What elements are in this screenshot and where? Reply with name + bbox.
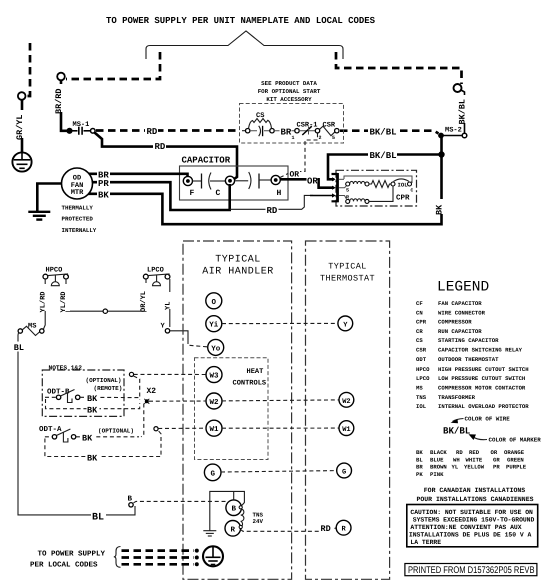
svg-text:1: 1 — [292, 135, 295, 141]
svg-text:SEE PRODUCT DATA: SEE PRODUCT DATA — [261, 80, 317, 87]
svg-text:2: 2 — [319, 135, 322, 141]
label: PR (fan) — [97, 178, 110, 189]
svg-text:G: G — [342, 469, 346, 477]
terminal H — [271, 175, 281, 198]
node: wire end dots — [195, 549, 199, 567]
label: thermally protected internally — [62, 205, 97, 235]
label: RD (thermostat R) — [321, 524, 331, 534]
svg-text:WH: WH — [453, 456, 460, 463]
capacitor CS (starting capacitor) — [242, 112, 274, 136]
svg-text:CONTROLS: CONTROLS — [233, 380, 267, 388]
terminal C — [216, 176, 235, 198]
svg-text:HIGH PRESSURE CUTOUT SWITCH: HIGH PRESSURE CUTOUT SWITCH — [438, 366, 529, 373]
label: BK (ODT-A) — [82, 432, 95, 443]
node: GR/YL connector circle — [18, 92, 26, 100]
label: OR/YL — [139, 283, 150, 312]
compressor internal wiring — [339, 176, 412, 199]
svg-text:OR/YL: OR/YL — [139, 291, 148, 312]
svg-text:IOL: IOL — [398, 181, 409, 188]
wire: B dashed to air handler B — [134, 501, 229, 503]
svg-text:FAN CAPACITOR: FAN CAPACITOR — [438, 300, 482, 307]
svg-text:CR: CR — [416, 328, 423, 335]
switch HPCO (high pressure cutout) — [43, 267, 68, 286]
label: RD (compressor) — [266, 205, 279, 216]
label: X2 — [147, 387, 157, 396]
label: OR (solid) — [307, 175, 319, 186]
wire: W1 connector dashed to air handler W1 — [158, 427, 206, 429]
svg-text:F: F — [190, 189, 195, 198]
svg-text:ORANGE: ORANGE — [504, 449, 525, 456]
svg-text:BK/BL: BK/BL — [443, 426, 471, 437]
svg-text:FOR CANADIAN INSTALLATIONS: FOR CANADIAN INSTALLATIONS — [424, 487, 526, 494]
wire: L2 dashed power drop (right) — [336, 52, 462, 84]
label: printed from — [408, 565, 535, 576]
wire: power feed brace outline — [146, 31, 343, 59]
resistor (run winding) — [369, 181, 391, 188]
svg-text:LOW PRESSURE CUTOUT SWITCH: LOW PRESSURE CUTOUT SWITCH — [438, 375, 525, 382]
wire: BR/RD vertical wire to MS-1 — [61, 81, 67, 131]
svg-text:IOL: IOL — [416, 403, 427, 410]
svg-text:INTERNALLY: INTERNALLY — [62, 227, 97, 234]
wire: W3 dashed to air handler W3 — [134, 373, 206, 375]
svg-text:CPR: CPR — [416, 319, 427, 326]
svg-text:BROWN: BROWN — [430, 464, 447, 471]
svg-text:MS-1: MS-1 — [73, 121, 90, 129]
svg-text:Yo: Yo — [211, 345, 221, 353]
connector CN on link wire — [103, 309, 107, 313]
node: power supply note (top) — [106, 15, 375, 26]
wire: RD from capacitor C to compressor R — [230, 195, 334, 209]
wire: BL from MS down the left side to B terminal — [18, 333, 135, 515]
label: typical air handler — [202, 255, 274, 278]
label: (OPTIONAL) ODT-A — [98, 428, 134, 435]
svg-text:OUTDOOR THERMOSTAT: OUTDOOR THERMOSTAT — [438, 356, 499, 363]
svg-text:RD: RD — [456, 449, 463, 456]
label: color of marker callout — [469, 434, 542, 443]
wire: G to thermostat G — [221, 471, 337, 472]
label: LEGEND title — [437, 280, 489, 296]
wire: fan motor PR to capacitor C — [92, 182, 230, 210]
svg-text:C: C — [216, 189, 221, 198]
label: BK/BL on solid wire — [368, 150, 397, 161]
label: BK/BL on dashed wire — [368, 126, 397, 137]
label: canadian installations note — [416, 487, 533, 503]
wire: Y to Yo — [170, 331, 208, 347]
svg-text:MTR: MTR — [71, 189, 84, 197]
compressor CPR connector bar — [332, 173, 338, 202]
wire: W1 to thermostat W1 — [222, 427, 339, 429]
svg-text:(OPTIONAL): (OPTIONAL) — [86, 377, 122, 384]
terminal B (air handler) — [226, 500, 242, 516]
svg-text:GR: GR — [493, 456, 500, 463]
svg-text:TO POWER SUPPLY: TO POWER SUPPLY — [38, 550, 106, 559]
label: notes 1&2 — [49, 365, 83, 372]
label: legend abbreviations list — [416, 300, 529, 410]
wire: RD solid (MS-1 to capacitor C) — [95, 133, 238, 181]
svg-text:SYSTEMS EXCEEDING 150V-TO-GROU: SYSTEMS EXCEEDING 150V-TO-GROUND — [413, 517, 535, 524]
svg-text:BL: BL — [416, 456, 423, 463]
label: YL/RD (second) — [59, 284, 70, 313]
svg-text:HPCO: HPCO — [46, 267, 63, 275]
wire: GR/YL dashed power drop — [26, 43, 30, 96]
node: W1 field connector — [154, 427, 158, 431]
label: BL (lower) — [91, 509, 106, 524]
compressor start winding S — [346, 181, 369, 193]
label: BK/BL (vertical) — [458, 95, 470, 125]
svg-text:MS: MS — [416, 385, 423, 392]
svg-text:CSR-1: CSR-1 — [297, 122, 318, 130]
svg-text:HPCO: HPCO — [416, 366, 430, 373]
svg-text:PURPLE: PURPLE — [506, 464, 527, 471]
terminal O (air handler) — [206, 293, 222, 309]
label: BK/BL wire marker example — [443, 426, 471, 437]
svg-text:(OPTIONAL): (OPTIONAL) — [98, 428, 134, 435]
node: junction dot BK/BL — [438, 151, 444, 157]
wire: YL/RD from HPCO right down to CN link — [66, 279, 103, 311]
node: B terminal connector — [128, 496, 134, 507]
svg-text:RD: RD — [155, 142, 166, 152]
svg-text:OR: OR — [307, 176, 318, 186]
relay contact CSR-1 — [274, 122, 317, 142]
wire: fan motor BR to capacitor F — [89, 174, 188, 177]
svg-text:BK: BK — [98, 191, 109, 201]
svg-text:C: C — [411, 188, 414, 194]
wire: X2 dashed to air handler W2 — [149, 400, 206, 402]
svg-text:(REMOTE): (REMOTE) — [94, 385, 123, 392]
svg-text:BLACK: BLACK — [430, 449, 447, 456]
svg-text:COLOR OF WIRE: COLOR OF WIRE — [465, 416, 511, 423]
wire: W2 to thermostat W2 — [222, 400, 339, 401]
svg-text:CAPACITOR: CAPACITOR — [182, 156, 231, 166]
wire: BK/BL dashed (CSR to MS-2) — [340, 131, 439, 134]
svg-text:YL/RD: YL/RD — [59, 291, 68, 312]
wire: L1 dashed power drop to BR/RD connector — [66, 52, 160, 79]
label: BK (fan) — [97, 190, 110, 201]
node: printed-from box — [405, 564, 537, 576]
svg-text:BR/RD: BR/RD — [54, 88, 64, 114]
svg-text:PER LOCAL CODES: PER LOCAL CODES — [30, 561, 98, 570]
wire: RD dashed (MS-1 to start kit box) — [96, 129, 240, 132]
svg-text:CF: CF — [416, 300, 423, 307]
terminal R (air handler) — [225, 521, 241, 537]
svg-text:FOR OPTIONAL START: FOR OPTIONAL START — [258, 88, 321, 95]
terminal W1 (air handler) — [206, 420, 222, 436]
svg-text:24V: 24V — [253, 518, 264, 525]
label: RD (dashed run) — [145, 126, 158, 137]
capacitor box label — [182, 156, 231, 166]
svg-text:STARTING CAPACITOR: STARTING CAPACITOR — [438, 337, 499, 344]
label: BK (ODT-B lower) — [87, 404, 100, 415]
svg-text:BK: BK — [82, 434, 93, 444]
transformer TNS coil — [239, 506, 244, 529]
box: heat controls — [195, 358, 269, 460]
svg-text:RD: RD — [267, 206, 278, 216]
label: YL — [165, 292, 175, 310]
terminal G (air handler) — [204, 464, 221, 481]
svg-text:ATTENTION:NE CONVIENT PAS AUX: ATTENTION:NE CONVIENT PAS AUX — [410, 524, 521, 531]
svg-text:BR: BR — [416, 464, 423, 471]
node: W3 field connector — [129, 372, 133, 376]
svg-text:BK: BK — [87, 453, 98, 463]
svg-text:O: O — [212, 298, 217, 307]
wire: ODT-A bypass loop down to W1 connector — [45, 430, 161, 456]
svg-text:BR: BR — [281, 127, 292, 137]
svg-text:WHITE: WHITE — [466, 456, 483, 463]
svg-text:W2: W2 — [342, 398, 350, 406]
wire: power line L1 (bottom) — [122, 549, 195, 552]
svg-text:AIR HANDLER: AIR HANDLER — [202, 267, 274, 278]
svg-text:COMPRESSOR: COMPRESSOR — [438, 319, 472, 326]
svg-text:BK/BL: BK/BL — [370, 151, 397, 161]
wire: junction MS-2 down to BK/BL node — [440, 137, 443, 155]
svg-text:CSR: CSR — [416, 347, 427, 354]
node: BR/RD connector circle — [57, 73, 65, 81]
compressor run winding R — [346, 186, 393, 203]
terminal W1 (thermostat) — [339, 421, 354, 436]
capacitor CR plates (F side) — [193, 173, 226, 190]
wire: fan motor frame ground — [37, 184, 61, 212]
compressor CPR dash-dot box — [336, 170, 417, 206]
transformer TNS wiring loop — [210, 491, 245, 530]
svg-text:W2: W2 — [209, 398, 219, 407]
svg-text:W1: W1 — [209, 426, 219, 434]
svg-text:ODT: ODT — [416, 356, 427, 363]
svg-text:CAPACITOR SWITCHING RELAY: CAPACITOR SWITCHING RELAY — [438, 347, 523, 354]
overload protector IOL — [391, 179, 414, 194]
wire: BK/BL wire down to MS-2 — [461, 90, 465, 133]
thermostat ODT-B — [45, 388, 80, 403]
svg-text:BK/BL: BK/BL — [370, 127, 397, 137]
svg-text:BK: BK — [435, 204, 445, 215]
box: ODT-B remote option (dash-dot) — [42, 370, 124, 416]
node: optional start kit dashed box — [240, 104, 344, 144]
svg-text:INTERNAL OVERLOAD PROTECTOR: INTERNAL OVERLOAD PROTECTOR — [438, 403, 529, 410]
label: color of wire callout — [451, 416, 511, 424]
svg-text:BK/BL: BK/BL — [458, 99, 468, 125]
svg-text:Yi: Yi — [209, 321, 219, 330]
wire: link CN to OR/YL riser — [108, 279, 147, 311]
terminal Y (thermostat) — [338, 316, 353, 331]
label: wire color code table — [416, 449, 527, 478]
svg-text:INSTALLATIONS DE PLUS DE 150 V: INSTALLATIONS DE PLUS DE 150 V A — [409, 531, 532, 538]
label: BL (upper) — [14, 342, 25, 354]
terminal G (thermostat) — [337, 463, 352, 478]
thermostat ODT-A — [45, 429, 76, 442]
label: ODT-A — [39, 425, 62, 434]
box: typical thermostat — [306, 241, 390, 579]
wire: dashed OR from H up to kit — [280, 174, 288, 178]
wire: dashed OR drop from CSR terminal 2 to H — [300, 133, 318, 171]
svg-text:BK: BK — [87, 406, 98, 416]
label: YL/RD (left) — [39, 284, 50, 313]
svg-text:BL: BL — [92, 513, 104, 524]
svg-text:YL: YL — [452, 464, 459, 471]
svg-text:THERMALLY: THERMALLY — [62, 205, 94, 212]
svg-text:YELLOW: YELLOW — [464, 464, 485, 471]
svg-text:W3: W3 — [209, 372, 219, 381]
svg-text:LPCO: LPCO — [147, 267, 164, 275]
svg-text:WIRE CONNECTOR: WIRE CONNECTOR — [438, 309, 486, 316]
node: X2 junction — [144, 399, 149, 404]
label: RD (solid run) — [153, 141, 166, 152]
label: typical thermostat — [320, 262, 375, 284]
label: BK (vertical right) — [435, 199, 447, 215]
box: typical air handler — [183, 241, 292, 579]
svg-text:R: R — [231, 526, 236, 534]
label: to power supply per local codes — [30, 550, 106, 570]
label: OR (dashed) — [290, 171, 300, 180]
label: CPR — [396, 193, 410, 202]
svg-text:TYPICAL: TYPICAL — [328, 262, 367, 272]
svg-text:MS-2: MS-2 — [445, 127, 462, 135]
terminal W3 (air handler) — [206, 367, 222, 383]
terminal Yi (air handler) — [206, 316, 222, 332]
svg-text:CN: CN — [416, 309, 423, 316]
ground: fan motor earth — [28, 212, 50, 220]
relay contact CSR — [315, 122, 339, 142]
svg-text:COLOR OF MARKER: COLOR OF MARKER — [489, 437, 542, 444]
label: GR/YL — [15, 110, 27, 140]
capacitor (dual run) box — [180, 166, 289, 200]
svg-text:COMPRESSOR MOTOR CONTACTOR: COMPRESSOR MOTOR CONTACTOR — [438, 385, 526, 392]
terminal Yo (air handler) — [208, 339, 224, 355]
svg-text:PINK: PINK — [430, 471, 444, 478]
svg-text:PK: PK — [416, 471, 423, 478]
ground: transformer earth — [203, 531, 216, 536]
svg-text:RUN CAPACITOR: RUN CAPACITOR — [438, 328, 482, 335]
wire: BK bypass row (ODT-B lower) — [46, 399, 140, 409]
node: brace for power lines — [114, 547, 121, 568]
svg-text:S: S — [346, 188, 349, 194]
svg-text:YL: YL — [165, 302, 173, 310]
svg-text:TO POWER SUPPLY PER UNIT NAMEP: TO POWER SUPPLY PER UNIT NAMEPLATE AND L… — [106, 15, 375, 26]
ground: circled earth (top left) — [12, 152, 31, 171]
wire: BK from ODT-B to X2 junction — [80, 397, 140, 399]
wire: X2 down to ODT-A — [141, 404, 144, 437]
label: BR (fan) — [97, 169, 110, 180]
terminal W2 (air handler) — [206, 393, 222, 409]
svg-text:5: 5 — [332, 135, 335, 141]
svg-text:KIT ACCESSORY: KIT ACCESSORY — [266, 96, 312, 103]
svg-text:BLUE: BLUE — [430, 456, 444, 463]
capacitor CF plates (H side) — [235, 172, 271, 189]
wire: Yi to thermostat Y — [222, 322, 338, 324]
terminal R (thermostat) — [336, 520, 351, 535]
svg-text:RD: RD — [321, 524, 331, 534]
label: BR — [280, 126, 292, 137]
node: BK/BL connector circle (right) — [454, 84, 462, 92]
svg-text:B: B — [231, 506, 236, 514]
svg-text:BK: BK — [416, 449, 423, 456]
label: BK (ODT-B) — [87, 393, 100, 404]
svg-text:ODT-A: ODT-A — [39, 425, 62, 434]
svg-text:CPR: CPR — [396, 193, 410, 202]
svg-text:PR: PR — [493, 464, 500, 471]
svg-text:TYPICAL: TYPICAL — [215, 255, 261, 266]
svg-text:X2: X2 — [147, 387, 157, 396]
wire: GR/YL ground wire — [21, 100, 24, 152]
terminal W2 (thermostat) — [339, 392, 354, 407]
wire: BK from ODT-A to X2 riser — [76, 436, 139, 438]
contactor MS-1 — [67, 121, 95, 135]
svg-text:TRANSFORMER: TRANSFORMER — [438, 394, 476, 401]
svg-text:W1: W1 — [342, 426, 350, 434]
svg-text:HEAT: HEAT — [247, 368, 264, 376]
wire: power ground line (bottom) — [122, 563, 195, 566]
wire: BK/BL solid to compressor — [328, 155, 442, 180]
label: (OPTIONAL) (REMOTE) — [86, 377, 123, 392]
node: Y terminal — [161, 323, 170, 333]
wire: R dashed to thermostat R — [241, 528, 337, 532]
label: heat controls — [233, 368, 267, 388]
label: BK (bypass) — [87, 452, 100, 464]
svg-text:H: H — [277, 189, 282, 198]
terminal F — [183, 176, 194, 198]
svg-text:YL/RD: YL/RD — [39, 291, 48, 312]
svg-text:PRINTED FROM D157362P05 REVB: PRINTED FROM D157362P05 REVB — [408, 565, 535, 576]
motor: OD FAN MTR — [62, 168, 93, 199]
svg-text:LA TERRE: LA TERRE — [410, 539, 441, 546]
ground: circled earth (bottom) — [203, 546, 223, 566]
svg-text:PR: PR — [98, 179, 109, 189]
svg-text:CAUTION: NOT SUITABLE FOR USE: CAUTION: NOT SUITABLE FOR USE ON — [410, 509, 533, 516]
svg-text:PROTECTED: PROTECTED — [62, 216, 94, 223]
svg-text:OR: OR — [491, 449, 498, 456]
svg-text:RED: RED — [469, 449, 480, 456]
wire: OR solid from H to compressor — [280, 179, 334, 187]
contactor coil MS — [18, 323, 44, 336]
wire: W3 connector down to X2 — [134, 376, 140, 398]
svg-text:BL: BL — [14, 343, 24, 353]
label: BR/RD — [54, 84, 66, 114]
svg-text:GREEN: GREEN — [507, 456, 524, 463]
wire: YL from LPCO right down to Y terminal — [169, 279, 171, 327]
svg-text:BK: BK — [87, 394, 98, 404]
svg-text:LPCO: LPCO — [416, 375, 430, 382]
contactor MS-2 — [439, 127, 467, 138]
node: caution box — [407, 505, 538, 547]
svg-text:THERMOSTAT: THERMOSTAT — [320, 274, 375, 284]
switch LPCO (low pressure cutout) — [143, 267, 170, 286]
label: see product data note — [258, 80, 321, 103]
svg-text:TNS: TNS — [416, 394, 427, 401]
wire: BK from junction down and to fan motor — [88, 155, 442, 225]
svg-text:RD: RD — [147, 127, 158, 137]
svg-text:POUR INSTALLATIONS CANADIENNES: POUR INSTALLATIONS CANADIENNES — [416, 496, 533, 503]
label: caution text — [409, 509, 535, 546]
svg-text:LEGEND: LEGEND — [437, 280, 489, 296]
svg-text:G: G — [210, 469, 215, 478]
label: TNS 24V — [253, 512, 264, 526]
wire: power line L2 (bottom) — [122, 556, 195, 559]
svg-text:R: R — [346, 195, 349, 201]
svg-text:GR/YL: GR/YL — [15, 114, 25, 140]
svg-text:CS: CS — [416, 337, 423, 344]
wire: YL/RD from HPCO left down to MS — [44, 279, 46, 329]
